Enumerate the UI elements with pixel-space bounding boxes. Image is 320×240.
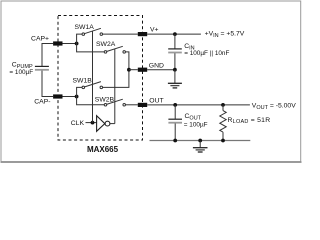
pin OUT	[138, 103, 147, 107]
switch SW2A	[104, 46, 125, 53]
node CAP+ junction	[75, 42, 79, 46]
wire C_PUMP to CAP- node (left loop bottom)	[42, 71, 53, 97]
switch SW2B	[104, 99, 125, 106]
control line SW1A/SW1B (from CLK)	[92, 31, 94, 123]
wire V+ rail	[147, 33, 201, 35]
svg-text:V+: V+	[150, 27, 159, 34]
wire V+ junction to C_IN	[174, 34, 176, 49]
pin CAP-	[53, 94, 62, 98]
capacitor C_PUMP	[35, 66, 49, 69]
svg-text:SW2A: SW2A	[96, 41, 116, 48]
control line SW2A/SW2B (inverted clock)	[114, 49, 116, 124]
wire C_IN to GND rail	[174, 53, 176, 69]
switch SW1B	[82, 82, 103, 89]
wire CAP+ junction up to SW1A	[77, 34, 83, 43]
svg-text:GND: GND	[149, 63, 164, 70]
pin V+	[138, 32, 147, 36]
node GND interior junction	[127, 68, 131, 72]
svg-text:SW1B: SW1B	[73, 78, 93, 85]
node ground stub junction	[198, 139, 202, 143]
node V+ / C_IN junction	[173, 32, 177, 36]
wire CAP- junction up to SW1B	[77, 87, 83, 96]
wire GND junction to GND pin	[129, 69, 138, 71]
svg-text:= 100µF: = 100µF	[9, 69, 33, 76]
svg-text:SW1A: SW1A	[75, 24, 95, 31]
wire OUT rail	[147, 104, 250, 106]
label C_PUMP = 100uF	[9, 62, 33, 77]
node OUT / R_LOAD junction	[221, 103, 225, 107]
node OUT / C_OUT junction	[173, 103, 177, 107]
wire R_LOAD bottom	[222, 132, 224, 140]
svg-text:OUT: OUT	[149, 98, 163, 105]
wire CAP+ node to C_PUMP (left loop top)	[42, 44, 53, 67]
ground symbol (GND)	[168, 83, 182, 88]
ground symbol (output)	[193, 148, 208, 152]
switch SW1A	[82, 28, 103, 35]
wire CAP- pin to junction	[63, 96, 77, 98]
wire CAP+ junction down to SW2A	[77, 44, 105, 52]
label C_OUT = 100uF	[184, 113, 208, 128]
svg-text:= 100µF || 10nF: = 100µF || 10nF	[184, 50, 229, 57]
wire ground rail (bottom)	[150, 140, 251, 142]
wire inverter output	[110, 123, 115, 125]
wire GND pin to junction	[147, 69, 175, 71]
wire C_OUT top	[174, 105, 176, 119]
wire SW1A to V+ pin	[103, 33, 138, 35]
wire CAP+ pin to junction	[63, 43, 77, 45]
wire CAP- junction down to SW2B	[77, 97, 105, 105]
wire C_OUT bottom	[174, 124, 176, 141]
IC outline U1 MAX665 (dashed box)	[58, 16, 143, 141]
wire SW2B to OUT pin	[125, 104, 137, 106]
node CLK junction	[91, 121, 95, 125]
node R_LOAD / rail junction	[221, 139, 225, 143]
svg-text:SW2B: SW2B	[95, 96, 115, 103]
svg-text:CLK: CLK	[71, 120, 85, 127]
wire GND junction down	[174, 70, 176, 84]
pin CAP+	[53, 41, 62, 45]
wire ground stub	[199, 141, 201, 148]
inverter U1a	[97, 116, 110, 132]
svg-text:MAX665: MAX665	[87, 145, 119, 154]
node CAP- junction	[75, 95, 79, 99]
capacitor C_OUT	[168, 119, 182, 123]
wire SW2A to GND branch	[125, 52, 128, 70]
resistor R_LOAD	[220, 111, 226, 133]
border frame	[1, 1, 302, 162]
node C_OUT / rail junction	[173, 139, 177, 143]
label C_IN = 100uF || 10nF	[184, 43, 229, 57]
svg-text:= 100µF: = 100µF	[184, 122, 208, 129]
capacitor C_IN	[168, 49, 182, 53]
svg-text:CAP-: CAP-	[34, 99, 50, 106]
wire CLK input	[86, 122, 97, 124]
node GND junction	[173, 68, 177, 72]
svg-text:CAP+: CAP+	[31, 36, 49, 43]
wire SW1B to GND branch	[103, 70, 129, 87]
pin GND	[138, 68, 147, 72]
wire R_LOAD top	[222, 105, 224, 111]
